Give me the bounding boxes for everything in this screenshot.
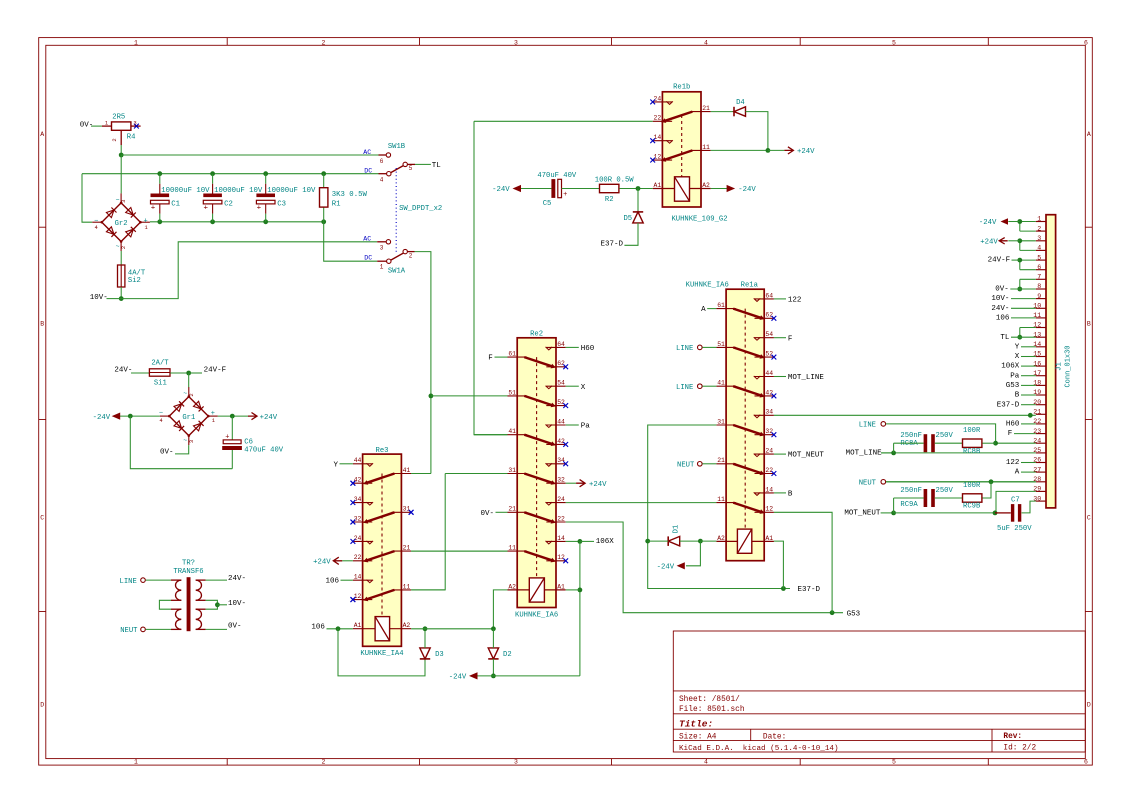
svg-text:21: 21: [717, 457, 725, 464]
svg-text:B: B: [1087, 320, 1091, 327]
svg-text:-24V: -24V: [93, 414, 111, 422]
svg-text:5: 5: [409, 165, 413, 172]
svg-text:7: 7: [1037, 274, 1041, 281]
svg-text:Date:: Date:: [763, 733, 786, 741]
svg-text:11: 11: [702, 144, 710, 151]
svg-text:3: 3: [380, 245, 384, 252]
svg-text:34: 34: [557, 457, 565, 464]
svg-text:C: C: [40, 514, 44, 521]
svg-text:44: 44: [765, 370, 773, 377]
svg-text:RC8A: RC8A: [900, 440, 918, 448]
svg-text:E37-D: E37-D: [600, 241, 623, 249]
svg-text:4: 4: [704, 758, 708, 765]
svg-text:8: 8: [1037, 283, 1041, 290]
svg-text:A2: A2: [508, 583, 516, 590]
svg-text:14: 14: [354, 574, 362, 581]
svg-text:Conn_01x30: Conn_01x30: [1065, 345, 1073, 387]
svg-text:250V: 250V: [936, 487, 954, 495]
svg-text:MOT_LINE: MOT_LINE: [788, 374, 825, 382]
svg-text:44: 44: [354, 457, 362, 464]
svg-text:61: 61: [717, 302, 725, 309]
svg-text:H60: H60: [581, 345, 595, 353]
svg-text:62: 62: [557, 360, 565, 367]
svg-text:J1: J1: [1056, 362, 1064, 371]
svg-text:Size: A4: Size: A4: [679, 733, 717, 741]
svg-text:1: 1: [134, 758, 138, 765]
svg-text:D4: D4: [736, 99, 745, 107]
svg-text:6: 6: [1084, 758, 1088, 765]
svg-text:12: 12: [354, 593, 362, 600]
svg-text:Gr2: Gr2: [115, 220, 128, 228]
svg-text:5: 5: [892, 758, 896, 765]
svg-text:0V-: 0V-: [80, 121, 94, 129]
svg-text:0V-: 0V-: [480, 510, 494, 518]
svg-text:250nF: 250nF: [900, 432, 922, 440]
svg-text:3: 3: [514, 39, 518, 46]
svg-text:SW1B: SW1B: [388, 143, 406, 151]
svg-text:Re3: Re3: [376, 447, 389, 455]
svg-text:D1: D1: [673, 525, 681, 534]
svg-text:A1: A1: [654, 182, 662, 189]
svg-text:R4: R4: [127, 133, 136, 141]
svg-text:NEUT: NEUT: [859, 479, 877, 487]
svg-text:A: A: [1087, 131, 1091, 138]
svg-text:NEUT: NEUT: [677, 461, 695, 469]
svg-text:6: 6: [1037, 264, 1041, 271]
svg-text:100R: 100R: [963, 482, 981, 490]
svg-text:100R 0.5W: 100R 0.5W: [595, 176, 635, 184]
svg-text:Y: Y: [1015, 343, 1020, 351]
svg-text:File: 8501.sch: File: 8501.sch: [679, 706, 745, 714]
svg-text:~: ~: [116, 243, 120, 250]
svg-text:11: 11: [717, 496, 725, 503]
svg-text:TR?: TR?: [182, 560, 195, 568]
svg-text:32: 32: [557, 477, 565, 484]
svg-text:250nF: 250nF: [900, 487, 922, 495]
svg-text:100R: 100R: [963, 427, 981, 435]
svg-text:4: 4: [1037, 245, 1041, 252]
svg-text:RC8B: RC8B: [963, 448, 981, 456]
svg-text:21: 21: [403, 545, 411, 552]
svg-text:RC9B: RC9B: [963, 503, 981, 511]
svg-text:0V-: 0V-: [160, 449, 174, 457]
svg-text:Re1a: Re1a: [741, 282, 759, 290]
svg-text:24V-: 24V-: [991, 305, 1009, 313]
svg-text:14: 14: [765, 486, 773, 493]
svg-text:A1: A1: [354, 622, 362, 629]
svg-text:1: 1: [380, 263, 384, 270]
svg-text:Y: Y: [333, 461, 338, 469]
svg-text:A1: A1: [765, 535, 773, 542]
svg-text:4: 4: [704, 39, 708, 46]
svg-text:24V-F: 24V-F: [988, 257, 1011, 265]
svg-text:Rev:: Rev:: [1003, 733, 1022, 741]
svg-text:Re2: Re2: [530, 330, 543, 338]
svg-text:D: D: [40, 701, 44, 708]
svg-text:F: F: [1008, 430, 1013, 438]
svg-text:+24V: +24V: [589, 481, 607, 489]
svg-text:24V-: 24V-: [114, 366, 132, 374]
svg-text:106X: 106X: [1001, 363, 1020, 371]
svg-text:32: 32: [765, 428, 773, 435]
svg-text:10V-: 10V-: [90, 294, 108, 302]
svg-text:C1: C1: [171, 201, 180, 209]
svg-text:Pa: Pa: [581, 423, 591, 431]
svg-text:6: 6: [380, 158, 384, 165]
svg-text:0V-: 0V-: [995, 286, 1009, 294]
svg-text:Sheet: /8501/: Sheet: /8501/: [679, 696, 740, 704]
svg-text:10000uF 10V: 10000uF 10V: [267, 187, 316, 195]
svg-text:MOT_LINE: MOT_LINE: [846, 449, 883, 457]
svg-text:KUHNKE_IA4: KUHNKE_IA4: [360, 650, 403, 658]
svg-text:~: ~: [183, 437, 187, 444]
svg-text:12: 12: [557, 554, 565, 561]
svg-text:4: 4: [380, 177, 384, 184]
svg-text:Si1: Si1: [154, 379, 167, 387]
svg-text:122: 122: [788, 297, 802, 305]
svg-text:10000uF 10V: 10000uF 10V: [214, 187, 263, 195]
svg-text:1: 1: [134, 39, 138, 46]
svg-text:TL: TL: [1000, 334, 1010, 342]
svg-text:+24V: +24V: [260, 414, 278, 422]
svg-text:31: 31: [403, 506, 411, 513]
svg-text:3: 3: [514, 758, 518, 765]
svg-text:61: 61: [508, 351, 516, 358]
svg-text:64: 64: [765, 292, 773, 299]
svg-text:24: 24: [654, 95, 662, 102]
svg-text:~: ~: [116, 197, 120, 204]
svg-text:41: 41: [508, 428, 516, 435]
svg-text:-24V: -24V: [657, 564, 675, 572]
svg-text:D: D: [1087, 701, 1091, 708]
svg-text:2: 2: [188, 393, 195, 396]
svg-text:LINE: LINE: [676, 345, 693, 353]
svg-text:52: 52: [765, 351, 773, 358]
svg-text:51: 51: [508, 389, 516, 396]
svg-text:24: 24: [557, 496, 565, 503]
svg-text:21: 21: [508, 506, 516, 513]
svg-text:B: B: [1015, 392, 1020, 400]
svg-text:64: 64: [557, 341, 565, 348]
svg-text:A2: A2: [702, 182, 710, 189]
svg-text:5: 5: [1037, 254, 1041, 261]
svg-text:A1: A1: [557, 583, 565, 590]
svg-text:C2: C2: [224, 201, 233, 209]
svg-text:6: 6: [1084, 39, 1088, 46]
svg-text:AC: AC: [363, 149, 371, 156]
svg-text:2: 2: [120, 246, 127, 249]
svg-text:106: 106: [325, 578, 339, 586]
svg-text:34: 34: [354, 496, 362, 503]
svg-text:2A/T: 2A/T: [151, 360, 169, 368]
svg-text:LINE: LINE: [859, 422, 876, 430]
svg-text:KUHNKE_109_G2: KUHNKE_109_G2: [671, 215, 727, 223]
svg-text:DC: DC: [364, 254, 372, 261]
svg-text:+: +: [563, 191, 567, 199]
svg-text:E37-D: E37-D: [997, 401, 1020, 409]
svg-text:C: C: [1087, 514, 1091, 521]
svg-text:G53: G53: [1006, 382, 1020, 390]
svg-text:X: X: [581, 384, 586, 392]
svg-text:C6: C6: [244, 439, 253, 447]
svg-text:22: 22: [654, 115, 662, 122]
svg-text:RC9A: RC9A: [900, 501, 918, 509]
svg-text:1: 1: [1037, 216, 1041, 223]
svg-text:5uF 250V: 5uF 250V: [997, 525, 1032, 533]
svg-text:Si2: Si2: [128, 277, 141, 285]
svg-text:21: 21: [702, 105, 710, 112]
svg-text:MOT_NEUT: MOT_NEUT: [788, 452, 825, 460]
svg-text:106: 106: [996, 315, 1010, 323]
svg-text:11: 11: [508, 545, 516, 552]
svg-text:G53: G53: [847, 611, 861, 619]
svg-text:3: 3: [133, 120, 136, 127]
svg-text:-24V: -24V: [738, 186, 756, 194]
svg-text:KiCad E.D.A. kicad (5.1.4-0-1: KiCad E.D.A. kicad (5.1.4-0-10_14): [679, 745, 839, 753]
svg-text:Title:: Title:: [679, 718, 713, 729]
svg-text:TRANSF6: TRANSF6: [173, 568, 203, 576]
svg-text:14: 14: [557, 535, 565, 542]
svg-text:22: 22: [354, 554, 362, 561]
svg-text:51: 51: [717, 341, 725, 348]
svg-text:41: 41: [717, 380, 725, 387]
svg-text:+24V: +24V: [980, 238, 998, 246]
svg-text:24: 24: [354, 535, 362, 542]
svg-text:+24V: +24V: [797, 148, 815, 156]
svg-text:250V: 250V: [936, 432, 954, 440]
svg-text:SW_DPDT_x2: SW_DPDT_x2: [399, 205, 442, 213]
svg-text:A: A: [1015, 469, 1020, 477]
svg-text:KUHNKE_IA6: KUHNKE_IA6: [515, 612, 558, 620]
svg-text:2R5: 2R5: [112, 114, 125, 122]
svg-text:62: 62: [765, 312, 773, 319]
svg-text:42: 42: [354, 477, 362, 484]
svg-text:C5: C5: [543, 200, 552, 208]
svg-text:B: B: [788, 491, 793, 499]
svg-text:+24V: +24V: [313, 559, 331, 567]
svg-text:KUHNKE_IA6: KUHNKE_IA6: [686, 282, 729, 290]
svg-text:R2: R2: [605, 196, 614, 204]
svg-text:34: 34: [765, 409, 773, 416]
svg-text:24V-: 24V-: [228, 575, 246, 583]
svg-text:A: A: [40, 131, 44, 138]
svg-text:R1: R1: [332, 200, 341, 208]
svg-text:AC: AC: [363, 236, 371, 243]
svg-text:-24V: -24V: [449, 674, 467, 682]
svg-text:A2: A2: [717, 535, 725, 542]
svg-text:122: 122: [1006, 459, 1020, 467]
svg-text:TL: TL: [432, 162, 442, 170]
svg-text:12: 12: [654, 154, 662, 161]
svg-text:2: 2: [111, 138, 118, 141]
svg-text:12: 12: [765, 506, 773, 513]
svg-text:470uF 40V: 470uF 40V: [537, 172, 577, 180]
svg-text:32: 32: [354, 515, 362, 522]
svg-text:0V-: 0V-: [228, 623, 242, 631]
svg-text:C3: C3: [277, 201, 286, 209]
svg-text:D2: D2: [503, 651, 512, 659]
svg-text:10000uF 10V: 10000uF 10V: [161, 187, 210, 195]
svg-text:Id: 2/2: Id: 2/2: [1003, 745, 1036, 753]
svg-text:C7: C7: [1011, 496, 1020, 504]
svg-text:31: 31: [508, 467, 516, 474]
svg-text:44: 44: [557, 418, 565, 425]
svg-text:+: +: [257, 204, 262, 212]
svg-text:MOT_NEUT: MOT_NEUT: [844, 509, 881, 517]
svg-text:24: 24: [765, 448, 773, 455]
svg-text:F: F: [788, 335, 793, 343]
svg-text:~: ~: [183, 390, 187, 397]
svg-text:10V-: 10V-: [991, 295, 1009, 303]
svg-text:9: 9: [1037, 293, 1041, 300]
svg-text:DC: DC: [364, 168, 372, 175]
svg-text:2: 2: [322, 39, 326, 46]
svg-text:+: +: [204, 204, 209, 212]
svg-text:2: 2: [322, 758, 326, 765]
svg-text:Gr1: Gr1: [182, 414, 195, 422]
svg-text:SW1A: SW1A: [388, 268, 406, 276]
svg-text:54: 54: [557, 380, 565, 387]
svg-text:Pa: Pa: [1010, 372, 1020, 380]
svg-text:2: 2: [1037, 225, 1041, 232]
svg-text:24V-F: 24V-F: [204, 367, 227, 375]
svg-text:22: 22: [557, 515, 565, 522]
svg-text:52: 52: [557, 399, 565, 406]
svg-text:31: 31: [717, 418, 725, 425]
svg-text:3K3 0.5W: 3K3 0.5W: [332, 191, 368, 199]
svg-text:D3: D3: [435, 651, 444, 659]
svg-text:Re1b: Re1b: [673, 84, 690, 92]
svg-text:-24V: -24V: [979, 219, 997, 227]
svg-text:B: B: [40, 320, 44, 327]
svg-text:A2: A2: [403, 622, 411, 629]
svg-text:10V-: 10V-: [228, 600, 246, 608]
svg-text:3: 3: [120, 200, 127, 203]
svg-text:5: 5: [892, 39, 896, 46]
svg-text:106X: 106X: [596, 538, 615, 546]
svg-text:LINE: LINE: [120, 578, 137, 586]
svg-text:42: 42: [765, 389, 773, 396]
svg-text:D5: D5: [623, 215, 632, 223]
svg-text:X: X: [1015, 353, 1020, 361]
svg-text:106: 106: [311, 624, 325, 632]
svg-text:54: 54: [765, 331, 773, 338]
svg-text:14: 14: [654, 134, 662, 141]
svg-text:LINE: LINE: [676, 384, 693, 392]
svg-text:42: 42: [557, 438, 565, 445]
svg-text:11: 11: [403, 583, 411, 590]
svg-text:E37-D: E37-D: [798, 586, 821, 594]
svg-text:H60: H60: [1006, 421, 1020, 429]
svg-text:+: +: [151, 204, 156, 212]
svg-text:41: 41: [403, 467, 411, 474]
svg-text:470uF 40V: 470uF 40V: [244, 446, 284, 454]
svg-text:3: 3: [188, 440, 195, 443]
svg-text:3: 3: [1037, 235, 1041, 242]
svg-text:A: A: [701, 306, 706, 314]
svg-text:22: 22: [765, 467, 773, 474]
svg-text:21: 21: [1033, 409, 1041, 416]
svg-text:2: 2: [409, 252, 413, 259]
svg-text:F: F: [488, 355, 493, 363]
svg-text:-24V: -24V: [492, 186, 510, 194]
svg-text:NEUT: NEUT: [120, 627, 138, 635]
